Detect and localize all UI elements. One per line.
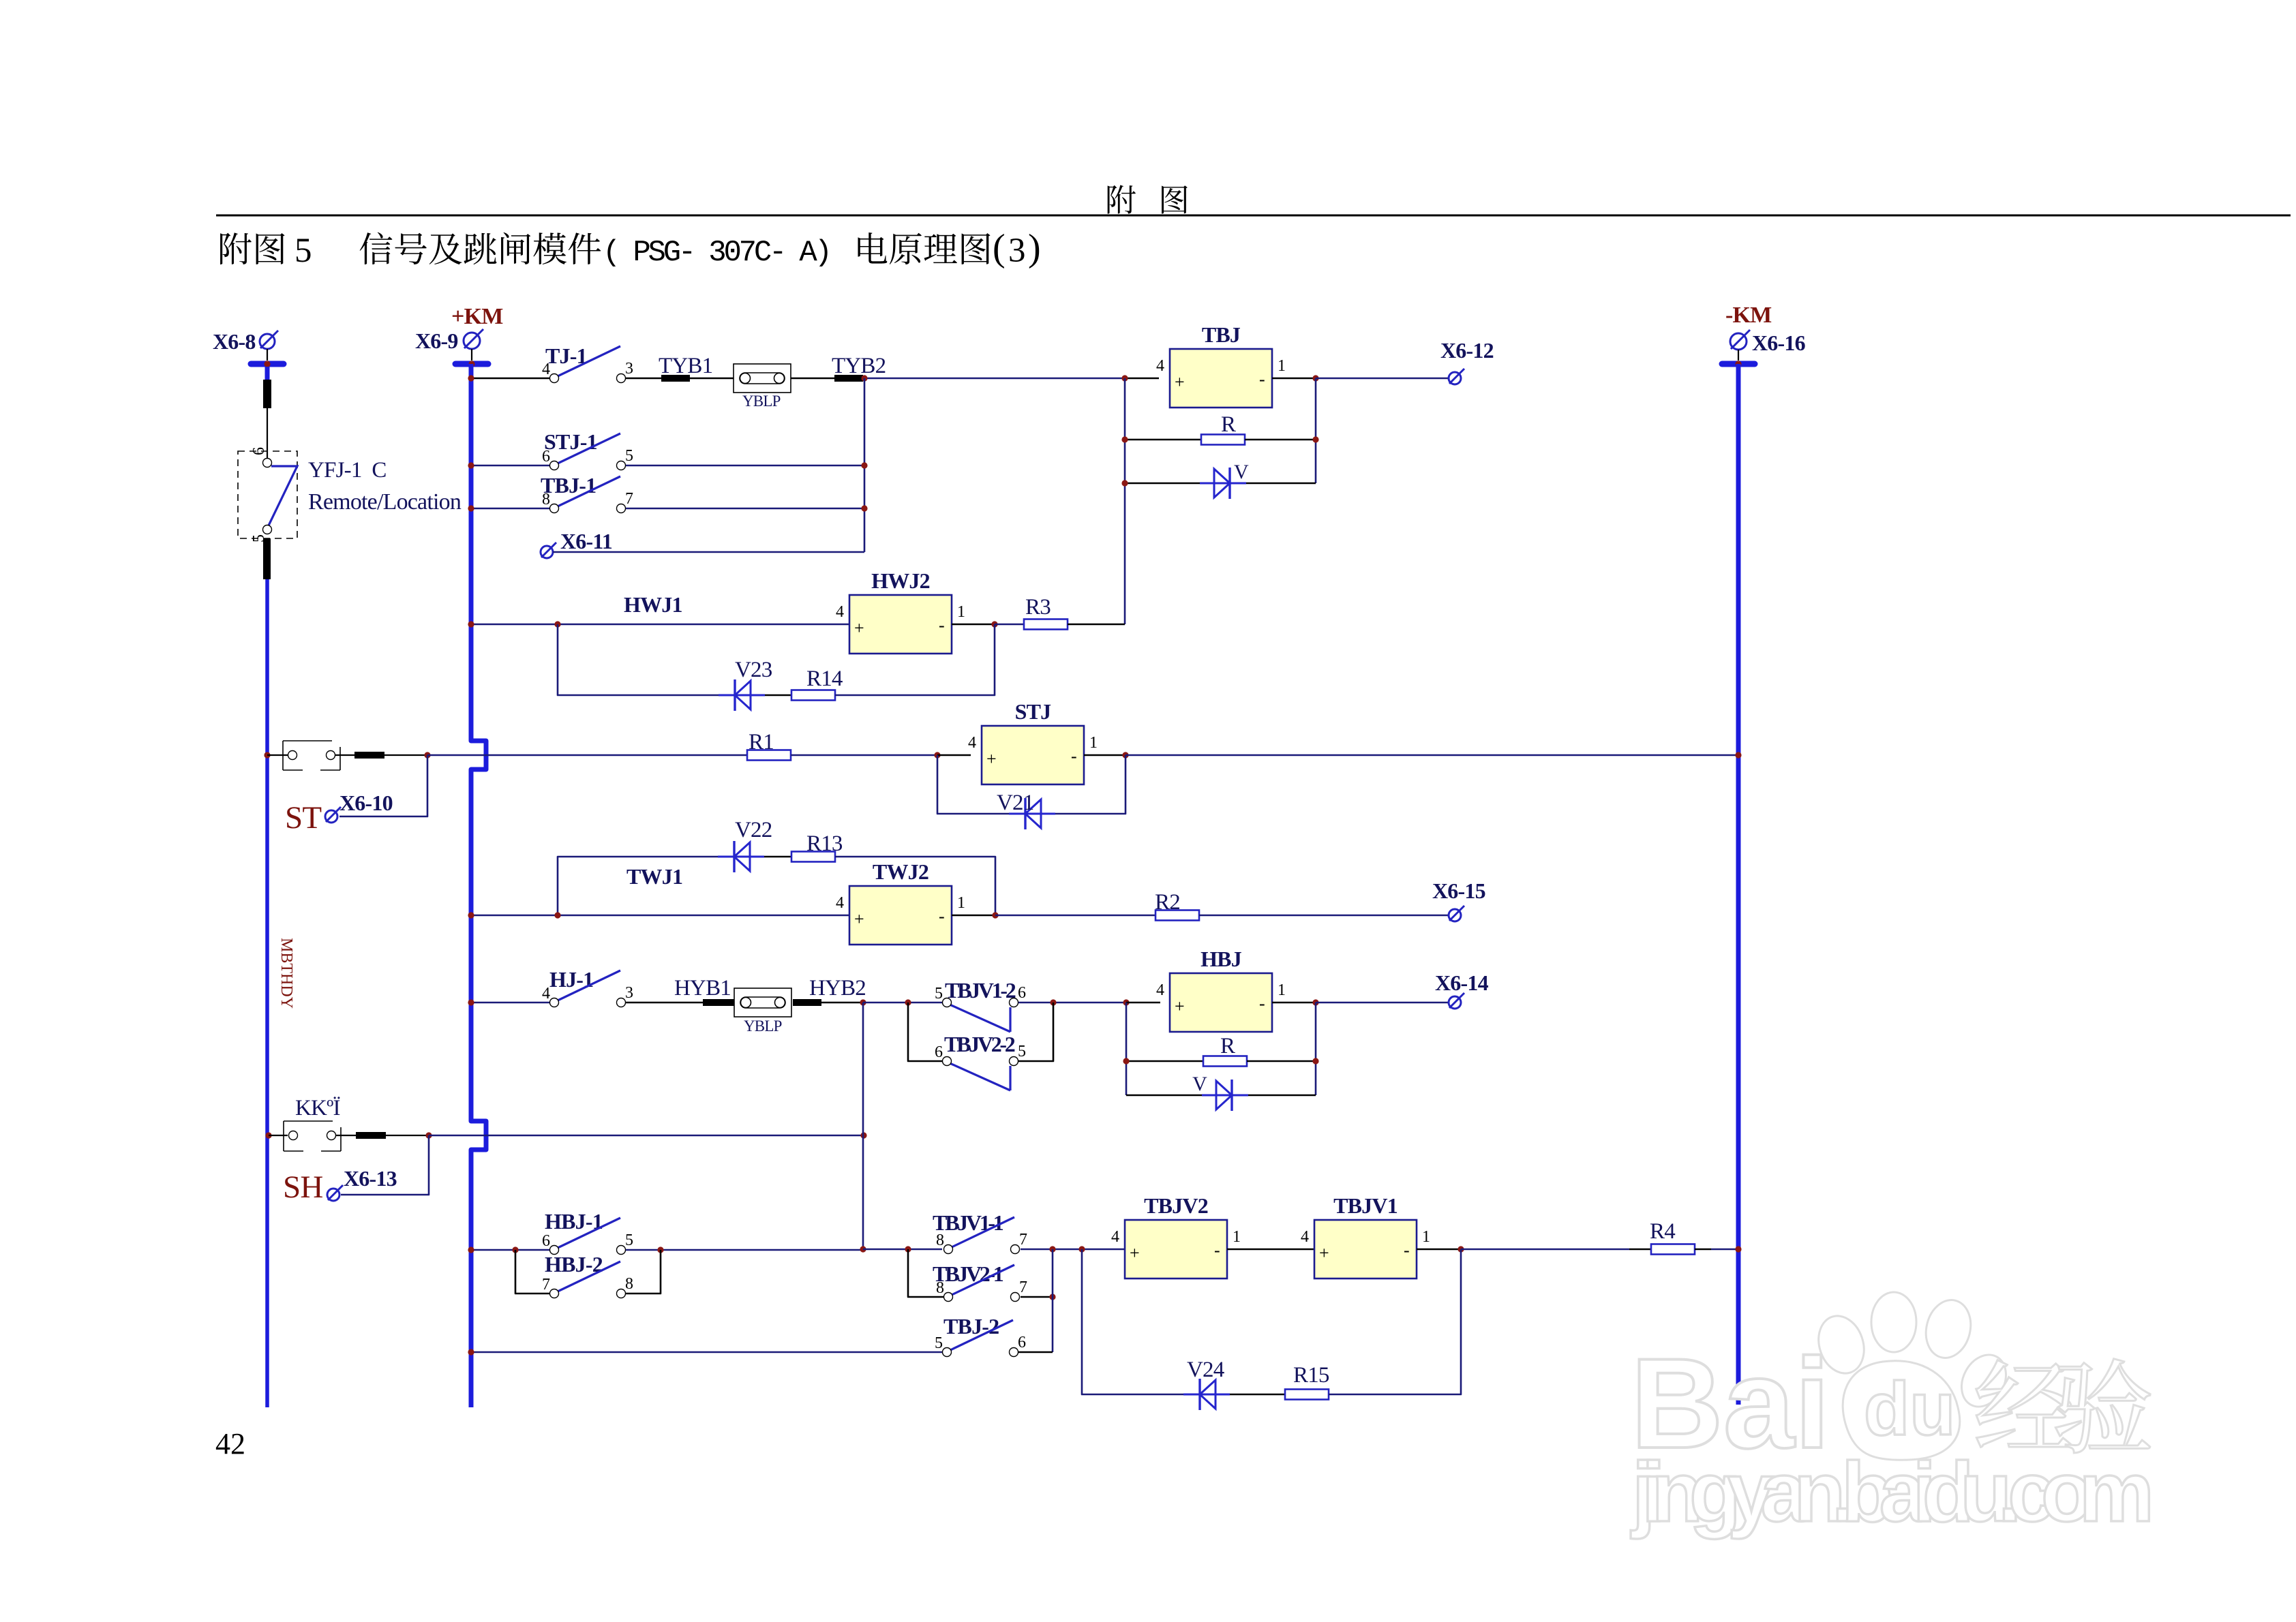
wire to STJ pin4 [937, 754, 971, 756]
wire HWJ2 pin1 [952, 624, 995, 626]
push button KK box [284, 1121, 341, 1151]
wire HBJ pin1 [1272, 1002, 1316, 1004]
rail -KM [1736, 364, 1741, 1405]
wire X6-16 stub [1738, 350, 1739, 361]
junction X6-9 bar [468, 361, 474, 367]
contact HBJ-1 [542, 1218, 633, 1255]
svg-text:6: 6 [542, 448, 550, 465]
wire to YFJ-1 [267, 408, 268, 459]
svg-text:TBJV1-2: TBJV1-2 [945, 978, 1016, 1003]
svg-text:HYB2: HYB2 [809, 976, 866, 1000]
wire TBJV2-1 to vertical [1021, 1296, 1053, 1298]
svg-text:R15: R15 [1293, 1363, 1329, 1388]
wire TYB2 to TBJ node [863, 378, 1125, 380]
junction bus TWJ1 [468, 912, 474, 918]
terminal blade ST [354, 752, 384, 759]
wire to resistor R (HBJ) [1126, 1060, 1203, 1062]
wire YBLP to TYB2 [791, 378, 834, 380]
svg-text:TBJV2-2: TBJV2-2 [944, 1032, 1015, 1056]
svg-text:KKºÏ: KKºÏ [295, 1096, 340, 1120]
terminal blade TYB1 [661, 375, 690, 382]
junction X6-8 bar [264, 361, 270, 367]
wire TBJV2 to TBJV1 [1227, 1249, 1314, 1251]
svg-text:HWJ1: HWJ1 [624, 592, 682, 617]
junction R right (TBJ) [1312, 436, 1318, 442]
svg-text:X6-14: X6-14 [1435, 970, 1489, 995]
svg-text:TWJ2: TWJ2 [873, 859, 928, 884]
wire R3 to TBJ vertical [1068, 624, 1125, 626]
contact TBJ-2 [935, 1320, 1026, 1357]
terminal X6-16 [1730, 330, 1750, 350]
svg-text:TBJV1: TBJV1 [1333, 1193, 1398, 1218]
svg-text:4: 4 [836, 603, 844, 621]
wire HYB2 to node [821, 1002, 863, 1004]
svg-text:V: V [1192, 1073, 1207, 1095]
relay TBJ [1156, 349, 1286, 408]
wire to R3 [995, 624, 1024, 626]
junction rail KK [265, 1132, 271, 1138]
svg-text:R: R [1220, 1034, 1235, 1058]
svg-text:HBJ-2: HBJ-2 [545, 1252, 603, 1276]
svg-text:HWJ2: HWJ2 [871, 568, 930, 593]
svg-text:TBJ: TBJ [1202, 322, 1241, 347]
wire R4 right stub [1695, 1249, 1711, 1251]
svg-text:HYB1: HYB1 [674, 976, 731, 1000]
junction KK right node [860, 1132, 866, 1138]
svg-text:TYB1: TYB1 [659, 354, 712, 378]
resistor R14 [791, 690, 835, 701]
wire V24 branch left [1082, 1249, 1183, 1394]
wire TBJ right vertical [1315, 378, 1317, 483]
wire blade to node [386, 1135, 429, 1136]
svg-text:SH: SH [283, 1169, 322, 1205]
svg-text:-: - [1071, 746, 1077, 766]
relay HBJ [1156, 973, 1286, 1032]
wire R4 to -KM [1711, 1249, 1738, 1251]
svg-text:YBLP: YBLP [744, 1017, 782, 1035]
svg-text:5: 5 [294, 232, 312, 270]
wire TBJV1-1 to TBJV2 [1021, 1249, 1125, 1251]
svg-text:X6-15: X6-15 [1432, 878, 1485, 903]
svg-text:5: 5 [625, 447, 633, 465]
wire vertical TBJ-2 [1052, 1249, 1054, 1352]
svg-text:4: 4 [1301, 1228, 1309, 1246]
svg-text:3: 3 [625, 360, 633, 378]
wire node to TBJV1-2 [863, 1002, 942, 1004]
junction bus TJ-1 [468, 375, 474, 381]
junction bus HWJ1 [468, 621, 474, 627]
junction TBJV2-1 branch [905, 1246, 911, 1252]
wire R to TBJ right [1245, 439, 1316, 441]
junction HBJ-2 branch [512, 1246, 518, 1253]
wire HBJ to X6-14 [1316, 1002, 1449, 1004]
wire TWJ2 pin1 [952, 915, 995, 917]
wire R13 down to TWJ2 pin1 [835, 857, 995, 915]
svg-text:TBJ-2: TBJ-2 [943, 1314, 999, 1338]
wire HWJ1 [473, 624, 852, 626]
junction -KM R4 row [1735, 1246, 1741, 1252]
watermark 经验 [1976, 1360, 2072, 1448]
svg-text:4: 4 [542, 985, 550, 1003]
junction bus TBJ-1 [468, 505, 474, 511]
junction TBJ pin1 node [1312, 375, 1318, 381]
lamp YBLP (HYB) [734, 988, 791, 1017]
wire HJ-1 to HYB1 [626, 1002, 703, 1004]
contact TJ-1 [542, 346, 633, 383]
terminal X6-9 [464, 329, 483, 349]
wire TBJV2-2 loop right [1018, 1003, 1053, 1061]
svg-text:TYB2: TYB2 [832, 354, 886, 378]
wire bus to TBJ-1 [473, 508, 549, 510]
wire bus to TBJ-2 [473, 1351, 942, 1353]
junction TBJV2-1 node [1049, 1294, 1055, 1300]
wire node to TBJV1-1 [863, 1249, 942, 1251]
svg-text:X6-13: X6-13 [344, 1166, 397, 1191]
svg-text:1: 1 [957, 894, 965, 912]
wire STJ V21 loop left [937, 755, 1009, 814]
svg-text:4: 4 [1156, 981, 1164, 999]
lamp YBLP [734, 364, 791, 393]
junction TYB2 [861, 375, 867, 381]
wire KK node down to X6-13 [341, 1135, 429, 1195]
wire X6-8 upper stub [265, 367, 270, 380]
svg-text:R14: R14 [806, 667, 843, 691]
bus bar X6-16 [1722, 361, 1755, 367]
wire R14 up to HWJ2 pin1 [835, 624, 995, 695]
pin 6 YFJ-1 [263, 459, 272, 468]
resistor R4 [1651, 1244, 1695, 1255]
junction bus HBJ-1 [468, 1246, 474, 1253]
svg-text:YBLP: YBLP [742, 393, 781, 410]
title 附图5 [220, 232, 284, 264]
contact HJ-1 [542, 970, 633, 1007]
wire TWJ1 row [473, 915, 852, 917]
terminal X6-15 [1449, 906, 1464, 921]
svg-text:HBJ: HBJ [1200, 947, 1242, 971]
bus bar X6-9 [455, 361, 488, 367]
terminal X6-11 [541, 542, 556, 558]
svg-text:R: R [1221, 412, 1236, 437]
wire V to TBJ right [1246, 483, 1316, 485]
junction HWJ1 branch [554, 621, 560, 627]
relay TBJV1 [1301, 1220, 1430, 1279]
svg-text:STJ-1: STJ-1 [544, 429, 597, 454]
wire X6-9 stub [471, 349, 472, 361]
svg-text:1: 1 [1422, 1228, 1430, 1246]
wire bus to HBJ-1 [473, 1249, 549, 1251]
wire HBJ right vertical [1315, 1003, 1317, 1095]
wire R4 left stub [1629, 1249, 1651, 1251]
junction X6-16 bar [1735, 361, 1741, 367]
relay TBJV2 [1111, 1220, 1241, 1279]
svg-text:X6-10: X6-10 [339, 791, 393, 815]
svg-text:6: 6 [1018, 984, 1026, 1002]
wire STJ V21 loop right [1055, 755, 1126, 814]
junction TBJ-1 node [861, 505, 867, 511]
svg-text:V21: V21 [997, 791, 1033, 815]
wire TBJ-2 to vertical [1018, 1351, 1053, 1353]
junction V24 branch [1078, 1246, 1085, 1252]
svg-text:1: 1 [1278, 357, 1286, 375]
header 附 [1108, 185, 1136, 214]
svg-text:4: 4 [1111, 1228, 1119, 1246]
wire TBJV2-1 loop left [908, 1249, 943, 1297]
svg-text:+: + [1130, 1243, 1140, 1263]
svg-text:-: - [1259, 994, 1265, 1013]
svg-text:8: 8 [936, 1279, 944, 1297]
junction HBJ pin1 node [1312, 999, 1318, 1005]
wire R1 to STJ [791, 754, 937, 756]
diode V24 [1183, 1379, 1230, 1410]
svg-text:+: + [1319, 1243, 1329, 1263]
svg-text:): ) [1028, 227, 1041, 269]
resistor R2 [1155, 911, 1199, 921]
svg-text:jingyan.baidu.com: jingyan.baidu.com [1631, 1445, 2154, 1540]
wire KK to node [429, 1135, 864, 1137]
wire V22 to R13 [764, 856, 791, 858]
svg-text:7: 7 [542, 1276, 550, 1294]
wire button to blade [335, 754, 354, 756]
push button ST box [283, 741, 340, 770]
wire HBJ left vertical [1126, 1003, 1128, 1095]
terminal X6-13 [327, 1185, 343, 1201]
junction HBJ-2 right branch [657, 1246, 663, 1253]
junction TBJ pin4 node [1121, 375, 1128, 381]
wire HBJ-2 loop left [515, 1250, 549, 1294]
terminal X6-8 [260, 331, 278, 349]
contact TBJ-1 [542, 476, 633, 513]
resistor R (HBJ) [1203, 1056, 1247, 1067]
svg-text:X6-12: X6-12 [1440, 338, 1494, 363]
resistor R1 [747, 750, 791, 761]
contact TBJV1-2 [935, 984, 1026, 1032]
terminal blade HYB2 [793, 999, 821, 1006]
wire V24 to R15 [1230, 1394, 1285, 1396]
wire bus to HJ-1 [473, 1002, 549, 1004]
diode V21 [1009, 798, 1055, 829]
junction HWJ2 pin1 [991, 621, 997, 627]
svg-text:X6-9: X6-9 [415, 328, 458, 353]
svg-text:+KM: +KM [451, 304, 503, 329]
wire to HBJ pin4 [1126, 1002, 1160, 1004]
contact TBJV2-2 [935, 1043, 1026, 1090]
svg-text:6: 6 [542, 1232, 550, 1250]
svg-text:+: + [854, 909, 864, 929]
header rule [216, 215, 2291, 217]
resistor R (TBJ) [1201, 435, 1245, 445]
svg-text:-: - [939, 615, 945, 635]
junction TBJV1 pin1 node [1457, 1246, 1464, 1252]
svg-text:X6-16: X6-16 [1752, 331, 1806, 355]
wire to diode V (TBJ) [1125, 483, 1200, 485]
junction node TBJV1-1 [860, 1246, 866, 1252]
wire ST to R1 [427, 754, 747, 756]
diode V22 [718, 841, 764, 872]
junction HYB2 node [860, 999, 866, 1005]
contact TBJV1-1 [936, 1217, 1027, 1254]
svg-text:TBJV2: TBJV2 [1144, 1193, 1208, 1218]
wire rail to KK button [269, 1135, 288, 1136]
svg-text:X6-11: X6-11 [560, 529, 612, 553]
wire vertical TYB2 down [864, 378, 866, 552]
wire ST node down to X6-10 [339, 755, 427, 816]
junction TBJV2-2 right branch [1050, 999, 1056, 1005]
wire STJ-1 to node [626, 465, 864, 467]
svg-text:V22: V22 [735, 818, 772, 842]
relay contact YFJ-1 box [238, 451, 297, 538]
resistor R13 [791, 852, 835, 862]
svg-text:+: + [1175, 372, 1185, 392]
bus +KM [471, 364, 486, 1407]
svg-text:8: 8 [625, 1275, 633, 1293]
svg-text:-: - [1259, 369, 1265, 389]
svg-text:R3: R3 [1025, 595, 1051, 619]
svg-text:8: 8 [542, 491, 550, 508]
wire STJ pin1 [1084, 754, 1126, 756]
svg-text:7: 7 [1019, 1231, 1027, 1249]
wire bus to STJ-1 [473, 465, 549, 467]
wire button to blade [336, 1135, 356, 1136]
wire TBJV2-2 loop left [908, 1003, 942, 1061]
wire HBJ-1 to node [626, 1249, 863, 1251]
svg-text:3: 3 [625, 984, 633, 1002]
svg-text:HJ-1: HJ-1 [549, 967, 593, 992]
junction rail ST [264, 752, 270, 758]
wire TBJ pin1 [1272, 378, 1316, 380]
svg-text:5: 5 [935, 1334, 943, 1352]
wire rail to ST button [267, 754, 288, 756]
svg-text:1: 1 [1089, 734, 1098, 752]
svg-text:STJ: STJ [1015, 699, 1052, 724]
svg-text:4: 4 [542, 361, 550, 378]
svg-text:+: + [986, 749, 997, 769]
terminal X6-14 [1449, 993, 1464, 1009]
wire TBJ to X6-12 [1316, 378, 1449, 380]
junction KK node [425, 1132, 432, 1138]
svg-text:+: + [854, 618, 864, 638]
junction R right (HBJ) [1312, 1058, 1318, 1064]
svg-text:+: + [1175, 996, 1185, 1016]
terminal blade X6-8 lower [263, 555, 271, 562]
svg-text:7: 7 [1019, 1279, 1027, 1296]
wire TYB1 to YBLP [690, 378, 734, 380]
junction STJ-1 node [861, 462, 867, 468]
junction ST node [424, 752, 430, 758]
junction R left (TBJ) [1121, 436, 1128, 442]
wire X6-11 to node [553, 551, 864, 553]
relay HWJ2 [836, 595, 965, 654]
svg-text:1: 1 [957, 603, 965, 621]
svg-text:42: 42 [215, 1427, 245, 1460]
svg-text:V: V [1234, 461, 1249, 483]
svg-text:7: 7 [625, 490, 633, 508]
svg-text:-KM: -KM [1725, 303, 1772, 328]
wire blade to node [384, 754, 427, 756]
svg-text:5: 5 [1018, 1043, 1026, 1060]
wire TBJ-1 to node [626, 508, 864, 510]
svg-text:-: - [1404, 1240, 1410, 1260]
terminal blade KK [356, 1132, 386, 1139]
wire HWJ1 to V23 [558, 624, 719, 695]
svg-text:6: 6 [1018, 1334, 1026, 1351]
wire V23 to R14 [765, 694, 791, 697]
wire bus to TJ-1 [473, 378, 549, 380]
junction bus HJ-1 [468, 999, 474, 1005]
svg-text:ST: ST [285, 800, 321, 836]
svg-text:(: ( [993, 227, 1006, 269]
wire V to HBJ right [1248, 1095, 1316, 1097]
junction HBJ pin4 node [1123, 999, 1129, 1005]
bus bar X6-8 [251, 361, 284, 367]
svg-text:TWJ1: TWJ1 [626, 864, 682, 889]
YFJ-1 moving contact [269, 466, 297, 525]
diode V (TBJ) [1200, 468, 1246, 499]
wire to R2 [995, 915, 1155, 917]
wire X6-8 stub [267, 349, 268, 361]
watermark Baidu logo [1631, 1292, 2014, 1475]
relay TWJ2 [836, 886, 965, 945]
svg-text:4: 4 [1156, 357, 1164, 375]
svg-text:X6-8: X6-8 [213, 329, 256, 354]
terminal blade X6-8 upper [263, 391, 271, 397]
svg-text:du: du [1864, 1367, 1955, 1451]
resistor R15 [1285, 1390, 1329, 1400]
junction V left (TBJ) [1121, 480, 1128, 486]
wire HBJ-2 loop right [626, 1250, 661, 1294]
wire to resistor R (TBJ) [1125, 439, 1201, 441]
junction TWJ1 branch [554, 912, 560, 918]
wire TBJV1 pin1 [1417, 1249, 1461, 1251]
wire R to HBJ right [1247, 1060, 1316, 1062]
diode V23 [719, 679, 765, 711]
junction TBJV1-2 branch [905, 999, 911, 1005]
svg-text:V23: V23 [735, 658, 772, 682]
contact STJ-1 [542, 433, 633, 470]
wire R15 up to node [1329, 1249, 1461, 1394]
wire STJ to -KM [1126, 754, 1738, 756]
contact TBJV2-1 [936, 1265, 1027, 1302]
svg-text:6: 6 [935, 1043, 943, 1061]
wire TBJV1-2 to HBJ [1018, 1002, 1126, 1004]
terminal X6-12 [1449, 369, 1464, 384]
junction STJ pin4 node [934, 752, 940, 758]
pin 5 YFJ-1 [263, 525, 272, 534]
svg-text:( PSG- 307C- A): ( PSG- 307C- A) [603, 236, 832, 270]
svg-text:R4: R4 [1650, 1219, 1675, 1244]
wire node to TBJ pin4 [1125, 378, 1159, 380]
resistor R3 [1024, 619, 1068, 630]
svg-text:4: 4 [968, 734, 976, 752]
svg-text:6: 6 [250, 447, 268, 455]
junction TBJ-2 vertical [1049, 1246, 1055, 1252]
junction TWJ2 pin1 [992, 912, 998, 918]
wire TJ-1 to TYB1 [626, 378, 661, 380]
junction bus STJ-1 [468, 462, 474, 468]
svg-text:YFJ-1 C: YFJ-1 C [308, 458, 387, 483]
svg-text:V24: V24 [1187, 1358, 1224, 1382]
junction -KM STJ row [1735, 752, 1741, 758]
svg-text:-: - [1214, 1240, 1220, 1260]
wire to diode V (HBJ) [1126, 1095, 1202, 1097]
rail X6-8 lower [265, 579, 269, 1407]
svg-text:5: 5 [935, 985, 943, 1003]
diode V (HBJ) [1202, 1080, 1248, 1111]
relay STJ [968, 726, 1098, 784]
svg-text:4: 4 [836, 894, 844, 912]
svg-text:1: 1 [1278, 981, 1286, 999]
junction STJ pin1 node [1122, 752, 1128, 758]
wire HYB2 node vertical [862, 1003, 864, 1249]
